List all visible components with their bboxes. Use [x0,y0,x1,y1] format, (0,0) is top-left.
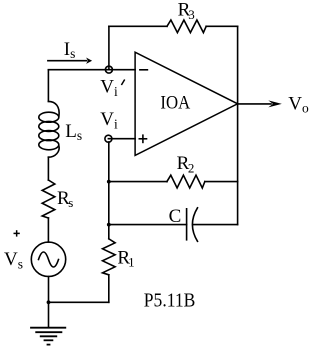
resistor R1 [103,239,116,275]
svg-text:Is: Is [64,39,76,61]
wire Is input segment [48,69,135,71]
wire R3 left vertical drop to node Vi' [108,26,110,69]
wire R3 left lead [109,25,167,27]
wire output [238,103,271,105]
svg-text:R3: R3 [178,0,195,22]
label plus polarity of Vs [14,230,20,236]
wire right vertical feedback bus [237,26,239,224]
svg-text:R2: R2 [177,153,195,175]
svg-text:P5.11B: P5.11B [144,290,196,312]
node Vi' open circle [105,66,112,73]
op-amp U1 triangle [135,52,238,155]
svg-text:IOA: IOA [160,93,190,114]
wire R1 bottom lead [108,275,110,303]
wire left branch vertical top [47,70,49,102]
node Vi open circle [105,135,112,142]
resistor Rs [42,180,55,218]
ground symbol bars [30,328,66,345]
svg-text:Vs: Vs [4,249,23,271]
source Vs circle [31,242,65,276]
output arrow Vo head [268,100,282,107]
svg-text:Vo: Vo [288,93,309,115]
capacitor C straight plate [186,209,188,240]
wire Rs to source Vs [47,218,49,242]
wire R2 right lead [205,181,238,183]
source Vs sine wave [39,252,59,267]
capacitor C curved plate [192,208,197,242]
junction dot C tap [107,223,111,227]
wire ground stem [48,302,50,327]
junction dot ground [47,300,51,304]
op-amp minus sign [140,69,148,71]
op-amp plus sign horizontal [139,138,146,140]
wire R3 right lead [206,25,237,27]
wire R2 left lead [109,181,167,183]
current arrow Is head [86,58,92,64]
wire inductor to Rs [47,157,49,180]
resistor R3 [167,20,206,33]
wire C right lead [193,224,238,226]
svg-text:C: C [169,206,182,227]
resistor R2 [167,175,205,188]
current arrow Is line [48,60,87,62]
wire node Vi to op-amp plus input [108,138,135,140]
svg-text:R1: R1 [117,247,134,269]
wire C left lead [109,224,187,226]
svg-text:Ls: Ls [65,121,82,143]
svg-text:Vi: Vi [100,77,118,99]
wire Vs to bottom junction [48,277,50,303]
op-amp plus sign vertical [142,135,144,142]
junction dot R2 tap [107,180,111,184]
svg-text:Vi: Vi [100,109,118,131]
wire R1 top lead [108,225,110,239]
inductor Ls [48,101,59,116]
svg-text:Rs: Rs [57,188,73,210]
wire node Vi vertical down [108,142,110,225]
wire bottom horizontal [49,301,109,303]
